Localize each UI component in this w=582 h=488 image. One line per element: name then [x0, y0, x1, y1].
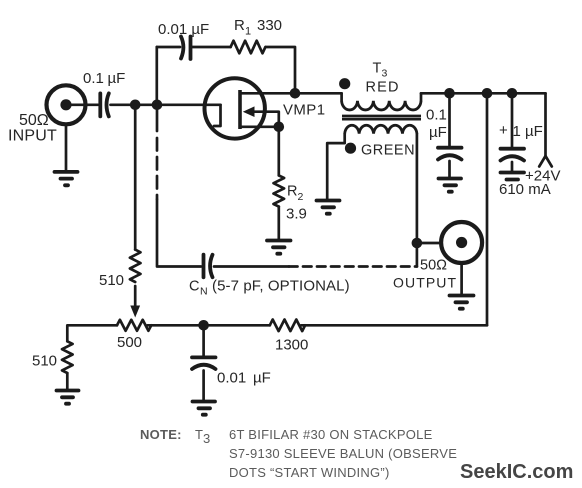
svg-text:µF: µF — [108, 70, 126, 87]
ground input — [55, 124, 78, 185]
svg-text:T: T — [195, 427, 203, 442]
label 50 ohm OUTPUT — [393, 258, 457, 291]
wire secondary left to ground — [327, 134, 345, 199]
resistor 500 pot — [117, 320, 151, 331]
svg-text:50Ω: 50Ω — [420, 258, 447, 274]
svg-text:R: R — [287, 184, 297, 200]
capacitor 0.01 uF bottom — [192, 325, 216, 400]
svg-text:GREEN: GREEN — [361, 143, 415, 159]
transformer T3 secondary winding — [345, 125, 417, 133]
label +1uF — [499, 122, 543, 140]
svg-text:C: C — [189, 279, 199, 295]
ground R2 — [267, 241, 291, 254]
wire output tap — [417, 242, 441, 245]
resistor 510 shunt — [62, 341, 73, 373]
capacitor CN optional — [204, 255, 213, 278]
wire secondary right drop to output — [416, 134, 419, 267]
svg-text:50Ω: 50Ω — [19, 112, 49, 129]
svg-text:INPUT: INPUT — [8, 128, 57, 145]
ground 510 shunt — [57, 391, 79, 404]
wire R1 to drain — [266, 47, 295, 93]
wire bottom rail right — [301, 324, 487, 327]
ground electrolytic — [501, 173, 525, 180]
label R2 3.9 — [286, 184, 307, 223]
svg-text:330: 330 — [257, 17, 282, 34]
svg-text:1: 1 — [245, 26, 251, 38]
svg-text:R: R — [234, 17, 245, 34]
transformer T3 primary winding — [342, 93, 421, 110]
svg-text:3.9: 3.9 — [286, 206, 307, 223]
svg-text:610 mA: 610 mA — [499, 181, 551, 198]
node gate junction A — [130, 100, 141, 111]
wire bottom rail left — [67, 325, 117, 341]
resistor 1300 — [270, 320, 305, 332]
ground T3 secondary — [317, 201, 340, 214]
power terminal +24V — [539, 93, 552, 166]
wire cap to R1 — [192, 46, 231, 49]
svg-text:N: N — [200, 286, 208, 298]
ground output — [450, 296, 474, 309]
svg-text:3: 3 — [203, 431, 210, 446]
svg-text:OUTPUT: OUTPUT — [393, 275, 457, 291]
wire drain line to transformer — [262, 92, 342, 95]
svg-text:500: 500 — [117, 334, 142, 351]
svg-text:1 µF: 1 µF — [513, 123, 543, 140]
wire feedback top left — [157, 46, 180, 49]
svg-text:µF: µF — [429, 124, 447, 141]
svg-text:µF: µF — [253, 370, 271, 387]
node rail junction C1 — [444, 88, 455, 99]
phase dot RED — [339, 78, 350, 89]
connector J1 50 ohm input — [47, 85, 86, 124]
svg-text:SeekIC.com: SeekIC.com — [460, 461, 573, 483]
capacitor C2 +1uF electrolytic — [501, 93, 525, 171]
svg-text:(5-7 pF, OPTIONAL): (5-7 pF, OPTIONAL) — [212, 278, 350, 295]
svg-text:1300: 1300 — [275, 337, 308, 354]
label 50 ohm INPUT — [8, 112, 57, 145]
transformer T3 core — [342, 116, 421, 119]
svg-text:0.01 µF: 0.01 µF — [158, 21, 209, 38]
node rail junction feedback — [482, 88, 493, 99]
svg-text:S7-9130 SLEEVE BALUN (OBSERVE: S7-9130 SLEEVE BALUN (OBSERVE — [229, 446, 457, 461]
svg-text:RED: RED — [366, 80, 400, 96]
wire right feedback drop — [486, 93, 489, 325]
svg-text:0.1: 0.1 — [83, 70, 104, 87]
wire dashed run to output — [289, 265, 417, 268]
capacitor 0.01 uF feedback — [181, 37, 191, 60]
wire arrow to pot wiper — [130, 286, 140, 318]
svg-text:510: 510 — [32, 353, 57, 370]
node rail junction C2 — [507, 88, 518, 99]
svg-text:DOTS “START WINDING”): DOTS “START WINDING”) — [229, 465, 390, 480]
svg-text:3: 3 — [382, 68, 388, 80]
transistor Q1 VMP1 — [205, 78, 279, 138]
capacitor 0.1 uF input coupling — [100, 93, 109, 116]
svg-text:510: 510 — [99, 272, 124, 289]
phase dot GREEN — [345, 143, 356, 154]
wire C-in to gate — [111, 103, 221, 106]
node source junction — [274, 122, 285, 133]
svg-text:0.1: 0.1 — [426, 107, 447, 124]
node gate junction B — [152, 100, 163, 111]
wire dashed neutralization riser — [157, 105, 201, 267]
svg-text:6T BIFILAR #30 ON STACKPOLE: 6T BIFILAR #30 ON STACKPOLE — [229, 427, 433, 442]
wire top supply rail — [421, 92, 546, 95]
label 0.1 uF bypass — [426, 107, 447, 142]
wire input to C-in — [66, 103, 98, 106]
label T3 — [373, 61, 388, 80]
label R1 330 — [234, 17, 282, 38]
resistor R1 — [231, 41, 266, 54]
wire source to R2 — [277, 127, 280, 176]
ground bottom cap — [193, 402, 216, 415]
svg-text:NOTE:: NOTE: — [140, 427, 182, 442]
wire node A drop to pot — [134, 105, 137, 250]
svg-text:2: 2 — [298, 191, 304, 203]
resistor R2 — [273, 175, 284, 206]
wire output connector to ground — [460, 263, 463, 294]
wire CN to dashed run — [214, 265, 289, 268]
label CN 5-7 pF OPTIONAL — [189, 278, 350, 298]
node output junction — [412, 238, 423, 249]
wire bottom rail mid — [148, 324, 270, 327]
connector J2 50 ohm output — [441, 222, 482, 263]
svg-text:VMP1: VMP1 — [283, 102, 325, 119]
wire R2 to ground — [277, 207, 280, 239]
label +24V 610 mA — [499, 168, 560, 199]
svg-text:T: T — [373, 61, 382, 77]
capacitor 0.1 uF bypass — [438, 93, 462, 177]
note text block — [140, 427, 457, 480]
svg-text:0.01: 0.01 — [217, 370, 246, 387]
ground bypass cap — [439, 179, 462, 192]
svg-text:+: + — [499, 122, 508, 139]
wire 510 to ground — [66, 373, 69, 389]
node drain junction — [290, 88, 301, 99]
node bottom junction — [198, 320, 209, 331]
wire feedback riser from node B — [155, 47, 158, 105]
resistor 510 series — [130, 250, 141, 282]
